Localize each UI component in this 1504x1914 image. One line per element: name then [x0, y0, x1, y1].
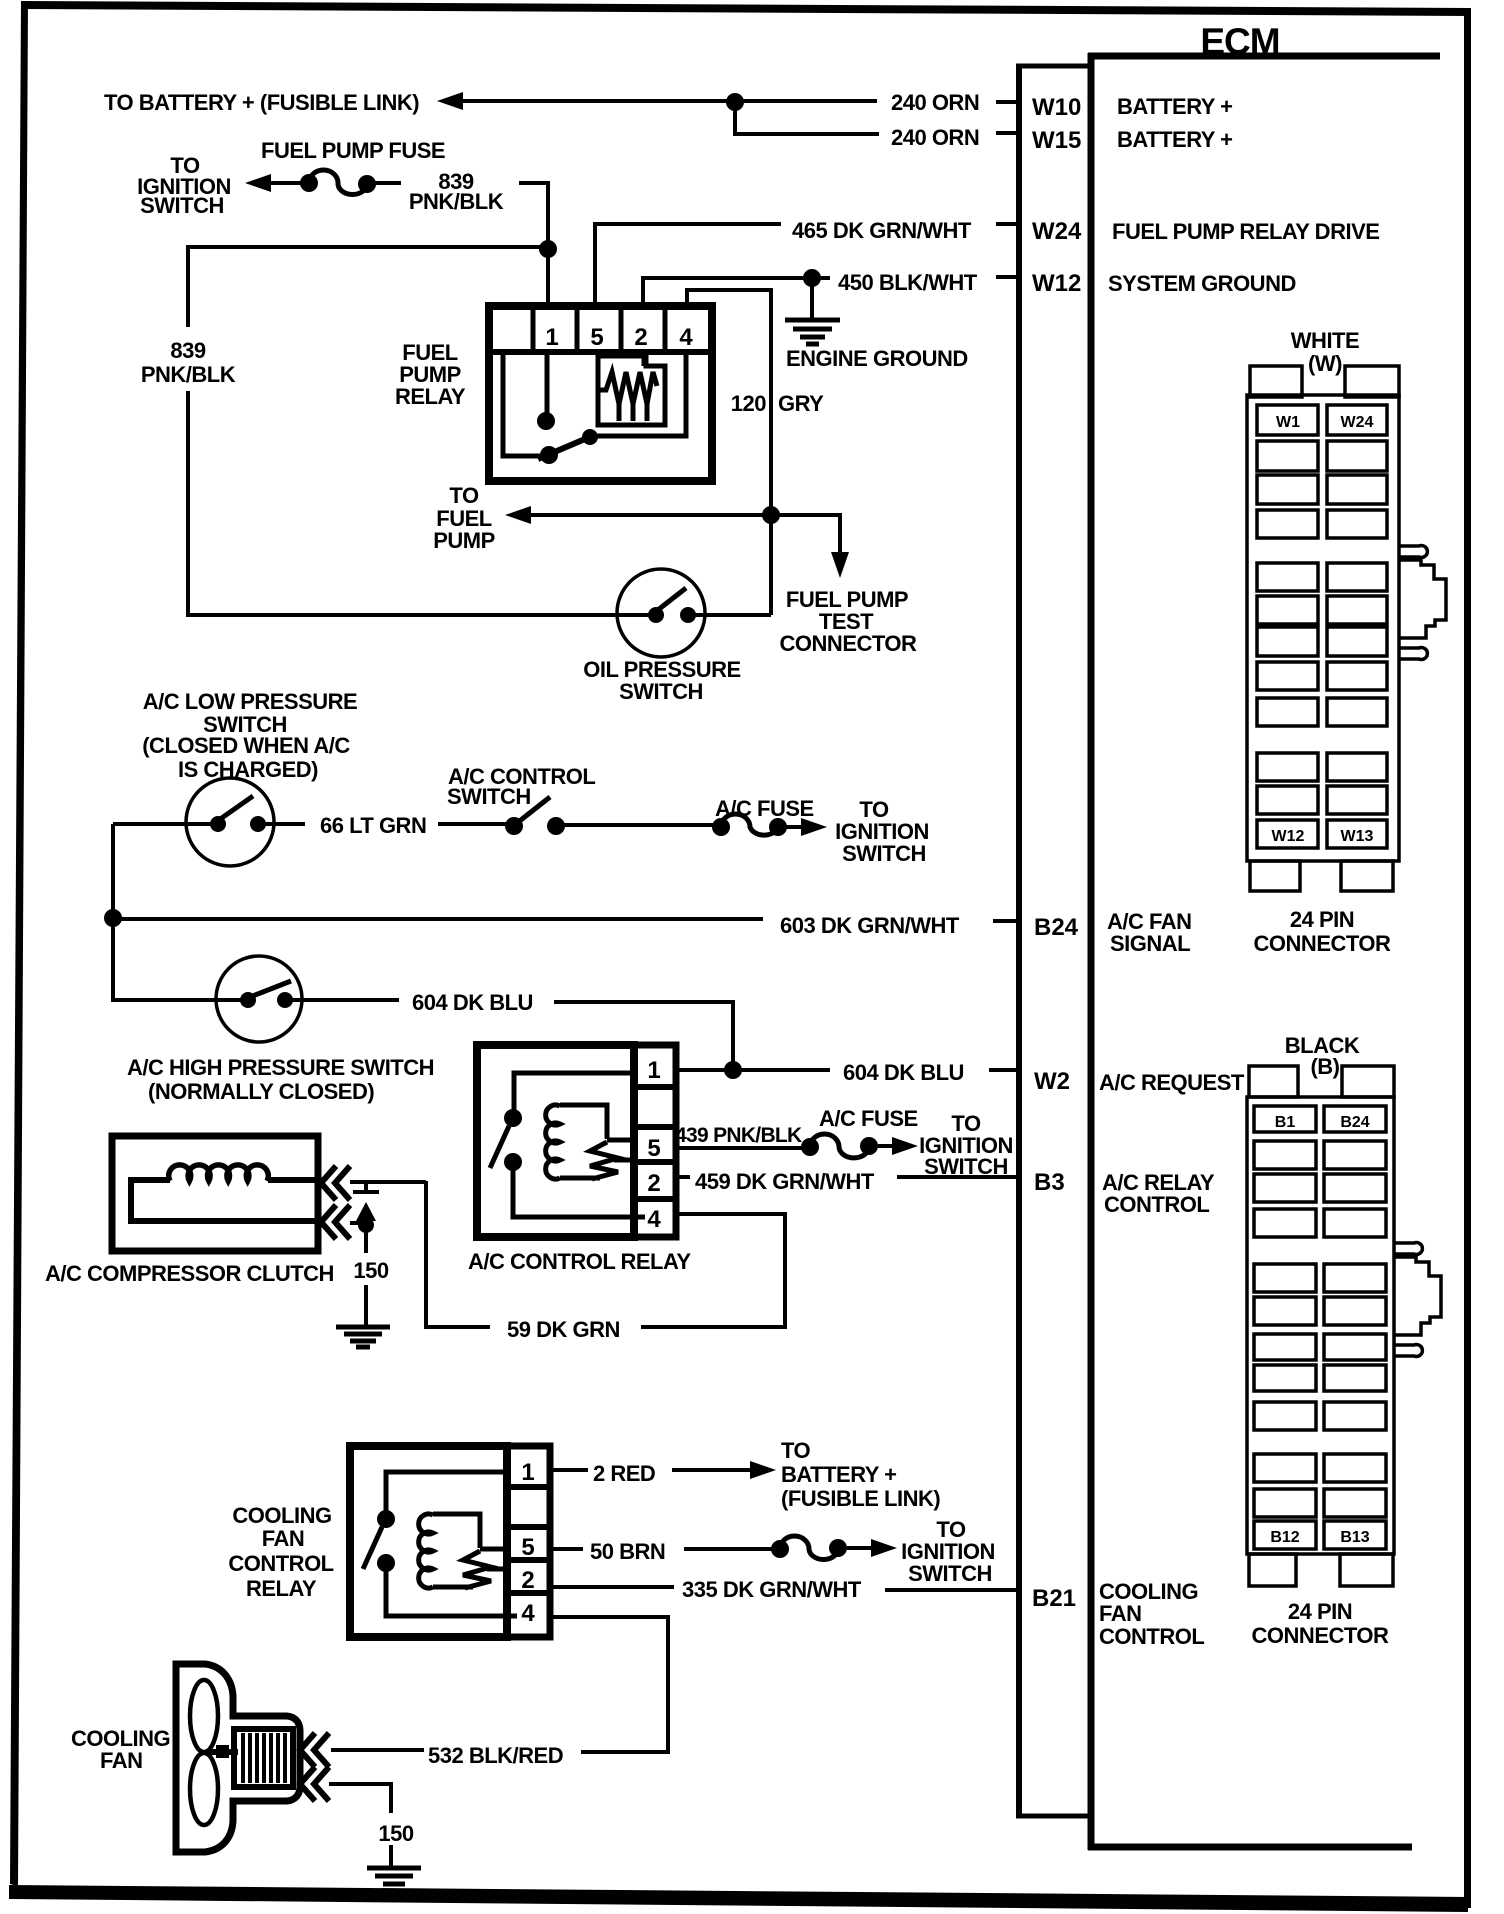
ECM box [1088, 53, 1440, 1850]
svg-text:603 DK GRN/WHT: 603 DK GRN/WHT [780, 913, 960, 938]
svg-text:W24: W24 [1341, 414, 1374, 431]
wire 50 BRN from fan relay pin 5 [550, 1547, 583, 1551]
A/C relay internal: coil [546, 1105, 634, 1179]
svg-text:B24: B24 [1034, 914, 1079, 941]
label TO BATTERY + (FUSIBLE LINK) lower [781, 1438, 940, 1511]
label COOLING FAN [71, 1726, 170, 1773]
junction dot 604 [724, 1061, 742, 1079]
svg-text:50 BRN: 50 BRN [590, 1539, 665, 1564]
svg-text:A/C CONTROL RELAY: A/C CONTROL RELAY [468, 1249, 691, 1274]
svg-text:5: 5 [647, 1135, 660, 1162]
fuel pump relay [489, 306, 712, 481]
svg-text:FUEL PUMP RELAY DRIVE: FUEL PUMP RELAY DRIVE [1112, 219, 1379, 244]
wire 66 LT GRN right of switch [258, 822, 305, 826]
wire 459 DK GRN/WHT from relay pin 2 [676, 1175, 690, 1179]
wire 603 DK GRN/WHT [113, 917, 763, 921]
svg-text:FAN: FAN [100, 1748, 143, 1773]
wire oil pressure switch right [688, 613, 771, 617]
svg-text:SYSTEM GROUND: SYSTEM GROUND [1108, 271, 1296, 296]
svg-text:120: 120 [731, 391, 766, 416]
svg-text:(CLOSED WHEN A/C: (CLOSED WHEN A/C [142, 733, 350, 758]
svg-text:BATTERY +: BATTERY + [1117, 127, 1233, 152]
svg-text:W1: W1 [1276, 414, 1300, 431]
label TO FUEL PUMP [433, 483, 495, 553]
svg-text:WHITE: WHITE [1291, 328, 1359, 353]
wire branch to W15 [735, 102, 879, 134]
fan blade upper [190, 1680, 218, 1752]
svg-text:COOLING: COOLING [232, 1503, 331, 1528]
arrow to ignition switch (439 line) [878, 1137, 918, 1155]
svg-text:CONTROL: CONTROL [1104, 1192, 1209, 1217]
junction dot clutch ground [358, 1217, 374, 1233]
wire 120 GRY lower [769, 515, 773, 615]
svg-text:SWITCH: SWITCH [908, 1561, 992, 1586]
svg-text:450 BLK/WHT: 450 BLK/WHT [838, 270, 978, 295]
black 24 pin connector [1247, 1066, 1394, 1586]
fan relay internal: switch arm [363, 1527, 382, 1569]
svg-text:B3: B3 [1034, 1169, 1065, 1196]
svg-text:5: 5 [590, 324, 603, 351]
wire 335 DK GRN/WHT from fan relay pin 2 [550, 1585, 674, 1589]
svg-text:24 PIN: 24 PIN [1290, 907, 1354, 932]
svg-text:A/C FUSE: A/C FUSE [715, 796, 814, 821]
svg-text:240 ORN: 240 ORN [891, 125, 979, 150]
fan shaft [206, 1745, 238, 1758]
connector chevrons fan upper [300, 1733, 329, 1767]
fan relay internal: pin1 wire and upper contact [377, 1472, 507, 1528]
cooling fan control relay [350, 1446, 550, 1637]
svg-text:4: 4 [521, 1600, 535, 1627]
svg-text:FAN: FAN [262, 1526, 305, 1551]
label COOLING FAN CONTROL RELAY [228, 1503, 333, 1601]
wire label 839 PNK/BLK (left) [141, 338, 236, 387]
svg-text:CONNECTOR: CONNECTOR [1252, 1623, 1389, 1648]
svg-text:SWITCH: SWITCH [447, 784, 531, 809]
svg-text:465 DK GRN/WHT: 465 DK GRN/WHT [792, 218, 972, 243]
fuel pump fuse [300, 170, 376, 195]
label A/C LOW PRESSURE SWITCH (CLOSED WHEN A/C IS CHARGED) [142, 689, 357, 782]
wire 839 left branch lower [186, 391, 190, 617]
svg-text:W12: W12 [1272, 828, 1305, 845]
A/C high pressure switch [216, 956, 302, 1042]
wire junction to relay pin 1 [546, 249, 550, 307]
svg-text:ENGINE GROUND: ENGINE GROUND [786, 346, 968, 371]
svg-text:2: 2 [521, 1567, 534, 1594]
svg-text:B13: B13 [1340, 1529, 1369, 1546]
wire 150 to ground [364, 1225, 368, 1253]
wire 66 LT GRN left [113, 822, 218, 826]
svg-text:1: 1 [647, 1057, 660, 1084]
wire label 839 PNK/BLK (upper) [409, 169, 504, 214]
svg-text:SWITCH: SWITCH [140, 193, 224, 218]
svg-text:W12: W12 [1032, 270, 1081, 297]
svg-text:CONNECTOR: CONNECTOR [1254, 931, 1391, 956]
black connector cells [1254, 1106, 1386, 1549]
connector chevrons clutch lower [321, 1205, 350, 1239]
A/C low pressure switch [186, 778, 274, 866]
engine ground symbol [785, 278, 840, 344]
wire 839 PNK/BLK from fuse [375, 181, 401, 185]
wire to fuel pump with left arrow [505, 506, 771, 524]
A/C relay internal: switch arm [490, 1126, 509, 1168]
wire left trunk vertical [111, 824, 115, 1002]
wire fan ground 150 [329, 1784, 391, 1813]
junction dot 603 [104, 909, 122, 927]
svg-text:CONNECTOR: CONNECTOR [780, 631, 917, 656]
svg-text:BATTERY +: BATTERY + [781, 1462, 897, 1487]
ground symbol fan [367, 1868, 421, 1884]
svg-text:2: 2 [634, 324, 647, 351]
arrow to ignition switch (66 line) [786, 818, 827, 836]
svg-text:TO BATTERY + (FUSIBLE LINK): TO BATTERY + (FUSIBLE LINK) [104, 90, 419, 115]
arrow to ignition switch [245, 174, 305, 192]
wire 532 BLK/RED to fan [331, 1748, 424, 1752]
svg-text:B1: B1 [1275, 1114, 1296, 1131]
svg-text:W10: W10 [1032, 94, 1081, 121]
svg-text:A/C FUSE: A/C FUSE [819, 1106, 918, 1131]
svg-text:66 LT GRN: 66 LT GRN [320, 813, 426, 838]
svg-text:FUEL PUMP FUSE: FUEL PUMP FUSE [261, 138, 445, 163]
svg-text:A/C COMPRESSOR CLUTCH: A/C COMPRESSOR CLUTCH [45, 1261, 334, 1286]
wire 604 left [113, 998, 248, 1002]
svg-text:CONTROL: CONTROL [228, 1551, 333, 1576]
svg-text:FAN: FAN [1099, 1601, 1142, 1626]
svg-text:PUMP: PUMP [433, 528, 495, 553]
label TO IGNITION SWITCH (439 line) [919, 1111, 1013, 1179]
wire to A/C fuse [564, 823, 714, 827]
svg-text:(B): (B) [1310, 1054, 1339, 1079]
junction dot engine ground [803, 269, 821, 287]
relay internal: coil zigzag [600, 372, 657, 421]
svg-text:W15: W15 [1032, 127, 1081, 154]
svg-text:TO: TO [781, 1438, 811, 1463]
clutch diode [353, 1182, 379, 1221]
relay internal: coil box [598, 356, 665, 425]
wire 439 PNK/BLK from relay pin 5 [676, 1146, 803, 1150]
wire 604 right of switch [285, 998, 399, 1002]
svg-text:(W): (W) [1308, 351, 1342, 376]
wire to A/C control switch [438, 822, 507, 826]
wire clutch ground [350, 1221, 362, 1225]
wire 2 RED from fan relay pin 1 [550, 1468, 588, 1472]
white connector cells [1257, 405, 1387, 848]
svg-text:240 ORN: 240 ORN [891, 90, 979, 115]
relay internal: arm pivot line from blank cell [503, 352, 540, 456]
white connector side notch [1399, 546, 1446, 660]
svg-text:604 DK BLU: 604 DK BLU [412, 990, 533, 1015]
wire 59 DK GRN left segment [426, 1181, 490, 1327]
svg-text:5: 5 [521, 1534, 534, 1561]
svg-text:(NORMALLY CLOSED): (NORMALLY CLOSED) [148, 1079, 374, 1104]
svg-text:532 BLK/RED: 532 BLK/RED [428, 1743, 563, 1768]
connector chevrons fan lower [300, 1767, 329, 1801]
svg-text:4: 4 [647, 1206, 661, 1233]
svg-text:W2: W2 [1034, 1068, 1070, 1095]
svg-text:W24: W24 [1032, 218, 1082, 245]
svg-text:24 PIN: 24 PIN [1288, 1599, 1352, 1624]
wire 604 DK BLU from relay pin 1 [676, 1068, 830, 1072]
svg-text:GRY: GRY [778, 391, 824, 416]
wire 59 DK GRN from relay pin 4 [641, 1214, 785, 1327]
svg-text:839: 839 [170, 338, 205, 363]
relay internal: pin 2 to coil [642, 352, 647, 366]
junction dot battery feed [726, 93, 744, 111]
white 24 pin connector [1247, 366, 1399, 891]
junction dot fuel pump tee [762, 506, 780, 524]
wire 59 DK GRN to clutch [350, 1180, 426, 1184]
svg-text:4: 4 [679, 324, 693, 351]
label TO IGNITION SWITCH (fuel pump fuse) [137, 153, 231, 218]
svg-text:PNK/BLK: PNK/BLK [141, 362, 236, 387]
wire 465 DK GRN/WHT from relay pin 5 [595, 224, 781, 306]
label TO IGNITION SWITCH (66 line) [835, 797, 929, 866]
relay internal: movable arm [538, 429, 598, 464]
svg-text:IS CHARGED): IS CHARGED) [178, 757, 318, 782]
cooling fan assembly [176, 1664, 300, 1852]
svg-text:B21: B21 [1032, 1585, 1076, 1612]
arrow to ignition switch (50 BRN) [847, 1539, 897, 1557]
A/C relay internal: pin1 wire and upper contact [504, 1073, 634, 1127]
svg-text:335 DK GRN/WHT: 335 DK GRN/WHT [682, 1577, 862, 1602]
A/C fuse (66 line) [712, 814, 787, 836]
A/C relay internal: lower contact to pin 4 [504, 1153, 645, 1217]
label 24 PIN CONNECTOR (black) [1252, 1599, 1389, 1648]
connector chevrons clutch upper [321, 1166, 350, 1200]
A/C control relay [477, 1045, 676, 1237]
svg-text:150: 150 [378, 1821, 413, 1846]
svg-text:439 PNK/BLK: 439 PNK/BLK [675, 1124, 802, 1147]
A/C fuse (439 line) [801, 1134, 878, 1158]
label A/C CONTROL SWITCH [447, 764, 595, 809]
svg-text:150: 150 [353, 1258, 388, 1283]
wire 240 ORN to W10 with left arrow [437, 92, 1019, 110]
fan relay internal: coil [419, 1514, 507, 1588]
label A/C HIGH PRESSURE SWITCH (NORMALLY CLOSED) [127, 1055, 434, 1104]
fan blade lower [190, 1753, 218, 1825]
oil pressure switch [617, 569, 705, 657]
svg-text:RELAY: RELAY [246, 1576, 317, 1601]
wire 839 left branch horizontal [188, 247, 548, 327]
svg-text:PNK/BLK: PNK/BLK [409, 189, 504, 214]
svg-text:459 DK GRN/WHT: 459 DK GRN/WHT [695, 1169, 875, 1194]
svg-text:A/C LOW PRESSURE: A/C LOW PRESSURE [143, 689, 357, 714]
svg-text:SWITCH: SWITCH [842, 841, 926, 866]
label WHITE (W) [1291, 328, 1359, 376]
wire 120 GRY from relay pin 4 [687, 290, 771, 511]
wire to fuel pump test connector with down arrow [771, 515, 849, 578]
svg-text:604 DK BLU: 604 DK BLU [843, 1060, 964, 1085]
svg-text:1: 1 [545, 324, 558, 351]
svg-text:SIGNAL: SIGNAL [1110, 931, 1190, 956]
label FUEL PUMP RELAY [395, 340, 466, 409]
black connector side notch [1394, 1243, 1441, 1357]
svg-text:1: 1 [521, 1459, 534, 1486]
relay internal: contact from pin 1 [537, 352, 555, 430]
wire 532 BLK/RED from fan relay pin 4 [550, 1617, 668, 1752]
svg-text:RELAY: RELAY [395, 384, 466, 409]
svg-text:W13: W13 [1341, 828, 1374, 845]
wire label 120 GRY [731, 391, 824, 416]
ECM pin strip [1016, 64, 1091, 1818]
fan relay internal: lower contact to pin 4 [377, 1554, 517, 1616]
wire oil pressure switch left [188, 613, 650, 617]
fan motor [234, 1729, 293, 1787]
svg-text:CONTROL: CONTROL [1099, 1624, 1204, 1649]
label TO IGNITION SWITCH (50 BRN) [901, 1517, 995, 1586]
relay internal: wire arm to pin 4 [590, 352, 686, 436]
arrow to battery (2 RED) [672, 1461, 776, 1479]
svg-text:2: 2 [647, 1170, 660, 1197]
svg-text:A/C REQUEST: A/C REQUEST [1099, 1070, 1245, 1095]
label BLACK (B) [1285, 1033, 1360, 1079]
svg-text:2 RED: 2 RED [593, 1461, 655, 1486]
svg-text:TO: TO [449, 483, 479, 508]
svg-text:BATTERY +: BATTERY + [1117, 94, 1233, 119]
label FUEL PUMP TEST CONNECTOR [780, 587, 917, 656]
svg-text:SWITCH: SWITCH [619, 679, 703, 704]
svg-text:A/C HIGH PRESSURE SWITCH: A/C HIGH PRESSURE SWITCH [127, 1055, 434, 1080]
wire 604 to relay junction [554, 1002, 733, 1066]
label 24 PIN CONNECTOR (white) [1254, 907, 1391, 956]
svg-text:(FUSIBLE LINK): (FUSIBLE LINK) [781, 1486, 940, 1511]
label OIL PRESSURE SWITCH [583, 657, 740, 704]
svg-text:B24: B24 [1340, 1114, 1369, 1131]
svg-text:B12: B12 [1270, 1529, 1299, 1546]
junction dot 839 [539, 240, 557, 258]
wire 450 BLK/WHT from relay pin 2 [643, 278, 830, 306]
svg-text:59 DK GRN: 59 DK GRN [507, 1317, 620, 1342]
A/C control switch [505, 797, 565, 835]
ground symbol clutch [336, 1327, 390, 1347]
ignition fuse (50 BRN) [771, 1536, 847, 1559]
A/C compressor clutch [112, 1136, 319, 1251]
wire from label to junction [519, 183, 548, 245]
